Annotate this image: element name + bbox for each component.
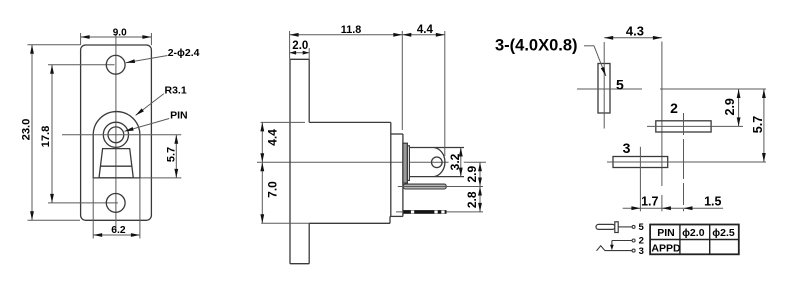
svg-text:APPD: APPD — [651, 242, 681, 254]
svg-text:2.9: 2.9 — [723, 98, 737, 115]
svg-text:3-(4.0X0.8): 3-(4.0X0.8) — [495, 37, 578, 55]
svg-text:7.0: 7.0 — [266, 181, 280, 198]
svg-text:3: 3 — [639, 246, 644, 257]
svg-text:R3.1: R3.1 — [165, 85, 187, 97]
svg-text:23.0: 23.0 — [20, 119, 32, 141]
svg-text:2.9: 2.9 — [465, 166, 479, 183]
svg-text:2.0: 2.0 — [292, 40, 308, 52]
svg-text:PIN: PIN — [170, 110, 188, 122]
svg-text:1.5: 1.5 — [704, 194, 721, 208]
svg-text:5: 5 — [616, 76, 624, 92]
svg-text:9.0: 9.0 — [113, 27, 127, 38]
svg-text:ϕ2.5: ϕ2.5 — [712, 227, 735, 239]
svg-text:3: 3 — [623, 140, 631, 156]
svg-text:2.8: 2.8 — [465, 191, 479, 208]
svg-text:2: 2 — [670, 100, 678, 116]
svg-text:ϕ2.0: ϕ2.0 — [682, 227, 705, 239]
svg-text:5: 5 — [639, 222, 645, 233]
svg-text:3.2: 3.2 — [448, 153, 462, 170]
svg-text:4.4: 4.4 — [417, 24, 434, 36]
svg-text:4.4: 4.4 — [266, 129, 280, 146]
svg-text:5.7: 5.7 — [165, 147, 177, 162]
svg-text:PIN: PIN — [657, 227, 675, 239]
svg-text:11.8: 11.8 — [341, 24, 361, 36]
svg-text:4.3: 4.3 — [626, 23, 644, 38]
svg-text:6.2: 6.2 — [111, 225, 126, 236]
svg-text:1.7: 1.7 — [641, 194, 658, 208]
svg-text:2-ϕ2.4: 2-ϕ2.4 — [168, 47, 200, 59]
svg-text:17.8: 17.8 — [40, 126, 52, 148]
svg-text:5.7: 5.7 — [751, 116, 765, 133]
